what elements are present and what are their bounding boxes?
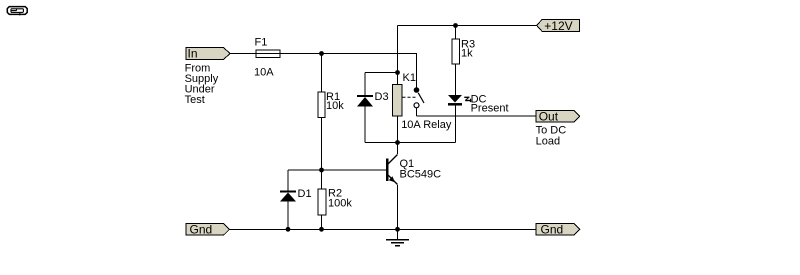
svg-text:Load: Load: [536, 135, 560, 147]
svg-text:Test: Test: [185, 94, 205, 106]
svg-text:D3: D3: [375, 91, 389, 103]
svg-text:1k: 1k: [461, 48, 473, 60]
svg-text:In: In: [188, 47, 198, 61]
svg-text:BC549C: BC549C: [400, 168, 442, 180]
svg-text:Out: Out: [539, 110, 559, 124]
svg-text:10A Relay: 10A Relay: [401, 119, 452, 131]
svg-text:D1: D1: [298, 188, 312, 200]
svg-text:10k: 10k: [326, 100, 344, 112]
svg-text:Gnd: Gnd: [190, 223, 213, 237]
svg-text:+12V: +12V: [544, 19, 572, 33]
svg-text:K1: K1: [403, 72, 416, 84]
svg-text:100k: 100k: [328, 197, 352, 209]
svg-text:Present: Present: [471, 103, 509, 115]
svg-text:Gnd: Gnd: [541, 223, 564, 237]
svg-text:F1: F1: [255, 37, 268, 49]
svg-text:10A: 10A: [254, 67, 274, 79]
